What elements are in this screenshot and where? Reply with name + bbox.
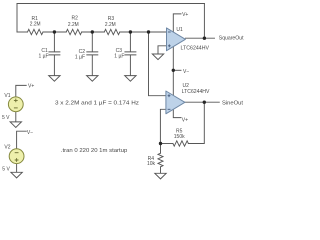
- ground C1: [49, 76, 60, 82]
- wire top feedback: [17, 3, 204, 5]
- capacitor C1: [49, 52, 60, 55]
- svg-text:V2: V2: [4, 145, 10, 151]
- wire V2 bottom: [16, 164, 18, 172]
- svg-text:V+: V+: [182, 117, 188, 123]
- ground V2: [11, 172, 22, 178]
- svg-text:1 µF: 1 µF: [38, 54, 48, 60]
- svg-text:R2: R2: [71, 15, 78, 21]
- svg-text:2.2M: 2.2M: [105, 22, 116, 28]
- node junction R2-C2: [91, 30, 94, 33]
- wire C3 top: [129, 32, 131, 52]
- svg-text:150k: 150k: [174, 134, 185, 140]
- wire U1 V+ pin: [173, 14, 181, 33]
- svg-text:1 µF: 1 µF: [114, 54, 124, 60]
- wire C2 top: [91, 32, 93, 52]
- U2 plus input mark: [168, 94, 171, 97]
- wire ladder segment b: [43, 31, 66, 33]
- wire C1 top: [53, 32, 55, 52]
- wire U2 output to SineOut: [185, 101, 219, 103]
- node junction U1 output: [203, 37, 206, 40]
- wire C1 bottom: [53, 55, 55, 75]
- wire node to R4: [160, 144, 162, 154]
- voltage source V2: [9, 149, 24, 164]
- wire V- label stub: [173, 69, 181, 71]
- resistor R2: [66, 29, 81, 34]
- op-amp U2: [166, 91, 185, 114]
- wire ladder segment d to U1 inverting input: [120, 31, 167, 33]
- resistor R5: [173, 141, 188, 146]
- node junction SineOut: [203, 101, 206, 104]
- ground C3: [125, 76, 136, 82]
- svg-text:3 x 2.2M and 1 µF = 0.174 Hz: 3 x 2.2M and 1 µF = 0.174 Hz: [55, 100, 140, 106]
- capacitor C2: [87, 52, 98, 55]
- svg-text:U1: U1: [176, 27, 183, 33]
- wire R5 to node: [161, 143, 173, 145]
- svg-text:.tran 0 220 20 1m startup: .tran 0 220 20 1m startup: [61, 148, 128, 154]
- svg-text:SquareOut: SquareOut: [219, 35, 244, 41]
- svg-text:V−: V−: [27, 130, 33, 136]
- svg-text:V−: V−: [183, 69, 189, 75]
- svg-text:5 V: 5 V: [2, 115, 10, 121]
- wire U1 noninverting input to ground: [158, 46, 167, 54]
- svg-text:R3: R3: [108, 16, 115, 22]
- wire C3 bottom: [129, 55, 131, 75]
- U2 minus input mark: [168, 108, 171, 110]
- svg-text:LTC6244HV: LTC6244HV: [181, 45, 210, 51]
- svg-text:2.2M: 2.2M: [30, 22, 41, 28]
- node junction V- rail: [172, 69, 175, 72]
- wire V1 bottom: [15, 112, 17, 122]
- svg-text:1 µF: 1 µF: [75, 54, 85, 60]
- U1 minus input mark: [168, 31, 171, 33]
- svg-text:V1: V1: [4, 93, 10, 99]
- svg-text:V+: V+: [28, 84, 34, 90]
- wire ladder segment a: [17, 31, 28, 33]
- svg-text:2.2M: 2.2M: [68, 22, 79, 28]
- wire SineOut to R5: [188, 102, 204, 143]
- svg-text:5 V: 5 V: [2, 167, 10, 173]
- resistor R1: [28, 29, 43, 34]
- wire U2 inverting input to node: [160, 109, 166, 143]
- wire left vertical: [16, 4, 18, 33]
- svg-text:V+: V+: [182, 12, 188, 18]
- node junction R1-C1: [53, 30, 56, 33]
- wire R4 bottom: [160, 167, 162, 173]
- wire U1 output to SquareOut: [185, 37, 214, 39]
- wire V2 top to V- label: [17, 131, 27, 149]
- resistor R4: [158, 153, 163, 167]
- wire V1 top to V+ label: [16, 85, 26, 97]
- wire node to U2 noninverting input: [149, 32, 166, 96]
- op-amp U1: [167, 28, 186, 51]
- wire ladder segment c: [82, 31, 105, 33]
- U1 plus input mark: [168, 44, 171, 47]
- svg-text:SineOut: SineOut: [222, 101, 244, 107]
- wire U2 V+ pin: [173, 109, 181, 117]
- capacitor C3: [125, 52, 136, 55]
- ground R4: [155, 173, 166, 179]
- voltage source V1: [8, 97, 23, 112]
- wire C2 bottom: [91, 55, 93, 75]
- ground C2: [87, 76, 98, 82]
- ground V1: [10, 122, 21, 128]
- ground U1 input: [152, 54, 163, 60]
- svg-text:LTC6244HV: LTC6244HV: [182, 89, 210, 95]
- node junction R4-R5: [159, 142, 162, 145]
- node junction R3-C3: [129, 30, 132, 33]
- wire V- rail U1 to U2: [172, 47, 174, 96]
- svg-text:10k: 10k: [147, 161, 156, 167]
- resistor R3: [104, 29, 119, 34]
- wire right vertical feedback: [203, 4, 205, 39]
- node junction ladder to U2: [147, 30, 150, 33]
